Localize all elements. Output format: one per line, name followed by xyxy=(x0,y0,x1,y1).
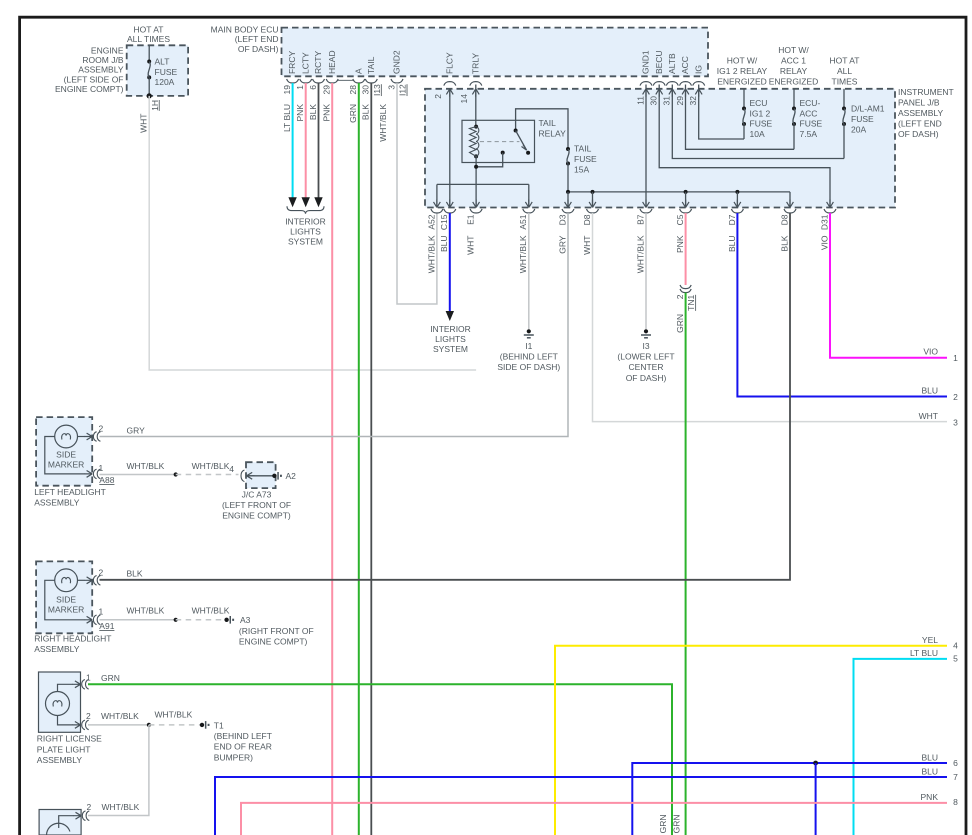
ECU pin TRLY connector into J/B (pin 14) xyxy=(470,82,482,86)
svg-text:20A: 20A xyxy=(851,125,866,135)
svg-text:29: 29 xyxy=(675,96,685,106)
svg-text:6: 6 xyxy=(308,85,318,90)
left headlight pin 2 connector xyxy=(84,433,92,440)
svg-text:HOT AT: HOT AT xyxy=(830,56,860,66)
svg-text:WHT/BLK: WHT/BLK xyxy=(426,235,436,273)
wire GRN from license pin 1 across page xyxy=(88,684,672,835)
bulb SIDE MARKER (right headlight) xyxy=(55,569,78,592)
svg-text:28: 28 xyxy=(348,85,358,95)
J/B pin D31 connector xyxy=(827,200,834,208)
svg-text:I3: I3 xyxy=(642,341,649,351)
svg-text:MAIN BODY ECU: MAIN BODY ECU xyxy=(211,25,279,35)
svg-text:(LOWER LEFT: (LOWER LEFT xyxy=(617,352,674,362)
svg-text:30: 30 xyxy=(649,96,659,106)
svg-text:(LEFT END: (LEFT END xyxy=(898,119,942,129)
bulb (left license plate light, partial) xyxy=(47,823,70,835)
svg-text:A3: A3 xyxy=(240,615,251,625)
svg-text:120A: 120A xyxy=(155,77,175,87)
svg-text:FRCY: FRCY xyxy=(287,51,297,74)
svg-text:PANEL J/B: PANEL J/B xyxy=(898,98,940,108)
ECU pin GND2 (3) connector xyxy=(391,79,403,83)
J/B pin B7 connector xyxy=(643,200,650,208)
svg-text:ACC: ACC xyxy=(680,56,690,74)
svg-text:ECU-: ECU- xyxy=(800,98,821,108)
wire WHT/BLK jumper to second license light xyxy=(88,725,149,816)
ECU pin FRCY (19) connector xyxy=(287,79,299,83)
ECU pin HEAD (29) connector xyxy=(326,79,338,83)
left headlight assembly box xyxy=(36,417,92,486)
svg-text:D8: D8 xyxy=(582,214,592,225)
svg-text:D3: D3 xyxy=(557,214,567,225)
wire PNK from LCTY to interior lights system xyxy=(305,83,307,198)
wire IG to ECU IG1 2 fuse inside J/B xyxy=(699,85,744,140)
wire GRN from TN1 down off page xyxy=(685,293,687,835)
relay TAIL RELAY box xyxy=(462,120,535,162)
svg-text:WHT: WHT xyxy=(466,236,476,255)
svg-text:WHT/BLK: WHT/BLK xyxy=(127,606,165,616)
ECU pin ACC connector into J/B (pin 29) xyxy=(680,82,692,86)
ground I1 xyxy=(527,329,531,333)
svg-text:WHT/BLK: WHT/BLK xyxy=(101,711,139,721)
svg-text:BLK: BLK xyxy=(127,568,143,578)
left license pin 2 connector xyxy=(73,812,81,819)
wire WHT/BLK from license pin 2 to splice T1 xyxy=(88,724,149,726)
svg-text:GRY: GRY xyxy=(557,235,567,254)
instrument panel J/B assembly box xyxy=(425,89,895,208)
svg-text:D/L-AM1: D/L-AM1 xyxy=(851,104,885,114)
svg-text:GRN: GRN xyxy=(101,673,120,683)
wire WHT/BLK dashed to splice A3 xyxy=(176,619,227,621)
wire WHT/BLK from right headlight pin 1 to splice A3 xyxy=(100,619,176,621)
node splice A3 xyxy=(224,618,228,622)
svg-text:T1: T1 xyxy=(214,721,224,731)
svg-text:ALT: ALT xyxy=(155,57,170,67)
node 1H (engine J/B connector) xyxy=(147,93,152,98)
svg-text:FLCY: FLCY xyxy=(444,52,454,74)
svg-text:YEL: YEL xyxy=(922,635,938,645)
node junction on BLU 6 xyxy=(813,761,818,766)
svg-text:BUMPER): BUMPER) xyxy=(214,752,253,762)
ECU pin GND1 connector into J/B (pin 11) xyxy=(640,82,652,86)
svg-text:SIDE OF DASH): SIDE OF DASH) xyxy=(497,362,560,372)
svg-text:1: 1 xyxy=(86,672,91,682)
svg-text:CENTER: CENTER xyxy=(629,362,664,372)
svg-text:WHT/BLK: WHT/BLK xyxy=(635,235,645,273)
svg-text:RCTY: RCTY xyxy=(313,51,323,74)
right headlight internal wiring xyxy=(45,580,85,620)
svg-text:2: 2 xyxy=(99,568,104,578)
wire PNK terminal 8 xyxy=(241,803,947,835)
J/B pin E1 connector xyxy=(473,200,480,208)
node splice A2 xyxy=(272,474,276,478)
svg-text:GRY: GRY xyxy=(127,425,146,435)
svg-text:D31: D31 xyxy=(819,214,829,230)
svg-text:ACC 1: ACC 1 xyxy=(781,56,806,66)
wire BLK from TAIL pin down off page xyxy=(370,83,372,835)
svg-text:GND2: GND2 xyxy=(392,50,402,74)
left license plate light assembly box (partial) xyxy=(39,810,81,835)
svg-text:TAIL: TAIL xyxy=(539,118,557,128)
svg-text:GRN: GRN xyxy=(348,104,358,123)
wire D3 drop from tail fuse xyxy=(567,192,569,208)
svg-text:A52: A52 xyxy=(426,214,436,229)
svg-text:WHT: WHT xyxy=(919,411,938,421)
wire WHT/BLK dashed to splice T1 xyxy=(149,724,202,726)
svg-text:ENERGIZED: ENERGIZED xyxy=(717,77,767,87)
svg-text:WHT/BLK: WHT/BLK xyxy=(155,710,193,720)
svg-text:LT BLU: LT BLU xyxy=(910,648,938,658)
svg-text:D7: D7 xyxy=(727,214,737,225)
svg-text:B7: B7 xyxy=(635,214,645,225)
ECU pin FLCY connector into J/B (pin 2) xyxy=(444,82,456,86)
svg-text:IG: IG xyxy=(693,65,703,74)
svg-text:HOT AT: HOT AT xyxy=(134,24,164,34)
svg-text:PLATE LIGHT: PLATE LIGHT xyxy=(37,744,91,754)
fuse ALT FUSE 120A xyxy=(148,45,150,61)
J/B pin A52 connector xyxy=(434,200,441,208)
svg-text:A: A xyxy=(353,68,363,74)
svg-text:END OF REAR: END OF REAR xyxy=(214,742,272,752)
svg-text:SIDE: SIDE xyxy=(56,449,76,459)
engine room J/B assembly box xyxy=(127,45,188,96)
svg-text:ASSEMBLY: ASSEMBLY xyxy=(34,644,80,654)
relay switch contacts xyxy=(514,129,518,133)
svg-text:C5: C5 xyxy=(675,214,685,225)
wire inside J/C A73 with arrow xyxy=(247,472,255,479)
svg-text:10A: 10A xyxy=(750,129,765,139)
node splice dot (license) xyxy=(147,723,151,727)
left headlight internal wiring xyxy=(45,437,85,474)
fuse D/L-AM1 FUSE 20A xyxy=(843,89,845,109)
license light internal wiring xyxy=(58,684,74,691)
svg-text:TIMES: TIMES xyxy=(832,77,858,87)
wire BECU to D31 inside J/B xyxy=(659,85,830,208)
wire WHT/BLK from GND2 to J/B pin A52 xyxy=(397,83,437,304)
svg-text:INSTRUMENT: INSTRUMENT xyxy=(898,87,954,97)
wire BLU from C15 to interior lights system xyxy=(449,213,451,312)
svg-text:BLK: BLK xyxy=(779,235,789,251)
svg-text:BLU: BLU xyxy=(727,236,737,253)
svg-text:LIGHTS: LIGHTS xyxy=(290,227,321,237)
svg-text:2: 2 xyxy=(99,424,104,434)
svg-text:PNK: PNK xyxy=(921,792,939,802)
svg-text:PNK: PNK xyxy=(295,104,305,122)
node splice dot (left headlight) xyxy=(174,472,178,476)
svg-text:ASSEMBLY: ASSEMBLY xyxy=(78,65,124,75)
svg-text:HOT W/: HOT W/ xyxy=(778,45,809,55)
svg-text:WHT: WHT xyxy=(139,114,149,133)
svg-text:GND1: GND1 xyxy=(641,50,651,74)
svg-text:A2: A2 xyxy=(286,471,297,481)
relay switch feed wire to TAIL FUSE xyxy=(516,109,568,149)
svg-text:(LEFT FRONT OF: (LEFT FRONT OF xyxy=(222,500,291,510)
svg-text:ACC: ACC xyxy=(800,108,818,118)
svg-text:RELAY: RELAY xyxy=(539,129,567,139)
svg-text:2: 2 xyxy=(953,392,958,402)
relay coil xyxy=(474,125,478,129)
svg-text:OF DASH): OF DASH) xyxy=(626,373,667,383)
right headlight pin 1 connector xyxy=(84,616,92,623)
svg-text:ASSEMBLY: ASSEMBLY xyxy=(898,108,944,118)
svg-text:INTERIOR: INTERIOR xyxy=(430,324,471,334)
svg-text:WHT: WHT xyxy=(582,236,592,255)
brace interior lights system xyxy=(287,206,324,214)
svg-text:LCTY: LCTY xyxy=(300,52,310,74)
svg-text:FUSE: FUSE xyxy=(851,114,874,124)
svg-text:I13: I13 xyxy=(372,84,382,96)
svg-text:ENGINE COMPT): ENGINE COMPT) xyxy=(239,636,308,646)
node splice dot (right headlight) xyxy=(174,618,178,622)
bulb (right license plate light) xyxy=(46,692,70,716)
wire WHT/BLK from left headlight pin 1 to splice A2 xyxy=(100,474,176,476)
wire tail feed bus xyxy=(568,191,790,193)
svg-text:BECU: BECU xyxy=(654,50,664,74)
svg-text:INTERIOR: INTERIOR xyxy=(285,217,326,227)
svg-text:2: 2 xyxy=(433,94,443,99)
svg-text:8: 8 xyxy=(953,797,958,807)
svg-text:LIGHTS: LIGHTS xyxy=(435,334,466,344)
svg-text:ENGINE COMPT): ENGINE COMPT) xyxy=(222,511,291,521)
license pin 2 connector xyxy=(73,722,81,729)
svg-text:IG1 2 RELAY: IG1 2 RELAY xyxy=(717,66,768,76)
wire ALTB to D/L-AM1 fuse inside J/B xyxy=(672,85,844,159)
svg-text:I1: I1 xyxy=(525,341,532,351)
svg-text:ECU: ECU xyxy=(750,98,768,108)
svg-text:WHT/BLK: WHT/BLK xyxy=(102,802,140,812)
wire BLU from D7 to terminal 2 xyxy=(737,213,947,397)
svg-text:1: 1 xyxy=(953,353,958,363)
wire WHT from D8 to terminal 3 xyxy=(593,213,948,422)
svg-text:MARKER: MARKER xyxy=(48,459,84,469)
svg-text:15A: 15A xyxy=(574,165,589,175)
ECU pin LCTY (1) connector xyxy=(300,79,312,83)
wire A52-A51 jumper inside J/B xyxy=(437,183,529,185)
svg-text:31: 31 xyxy=(662,96,672,106)
svg-text:PNK: PNK xyxy=(322,104,332,122)
arrows into interior lights system xyxy=(288,197,296,207)
wire GRY from D3 to left headlight side marker xyxy=(100,213,569,437)
wire BLU terminal 6 xyxy=(632,763,947,835)
wire GRN from A pin down off page xyxy=(358,83,360,835)
ECU main body box xyxy=(282,28,709,77)
svg-text:ASSEMBLY: ASSEMBLY xyxy=(34,498,80,508)
svg-text:BLU: BLU xyxy=(439,236,449,253)
svg-text:ALTB: ALTB xyxy=(667,53,677,74)
J/B pin A51 connector xyxy=(525,200,532,208)
svg-text:3: 3 xyxy=(953,418,958,428)
svg-text:5: 5 xyxy=(953,654,958,664)
svg-text:BLU: BLU xyxy=(921,767,938,777)
ECU pin IG connector into J/B (pin 32) xyxy=(693,82,705,86)
svg-text:J/C A73: J/C A73 xyxy=(242,489,272,499)
svg-text:BLK: BLK xyxy=(361,104,371,120)
wire WHT/BLK from A51 to ground I1 xyxy=(528,213,530,329)
svg-text:WHT/BLK: WHT/BLK xyxy=(192,606,230,616)
svg-text:TAIL: TAIL xyxy=(366,56,376,74)
right headlight pin 2 connector xyxy=(84,577,92,584)
svg-text:WHT/BLK: WHT/BLK xyxy=(127,461,165,471)
wire VIO from D31 to terminal 1 xyxy=(830,213,947,358)
wire GND1 to B7 through J/B xyxy=(645,85,647,208)
svg-text:FUSE: FUSE xyxy=(800,119,823,129)
svg-text:1H: 1H xyxy=(150,100,160,111)
ECU pin BECU connector into J/B (pin 30) xyxy=(653,82,665,86)
svg-text:(RIGHT FRONT OF: (RIGHT FRONT OF xyxy=(239,626,314,636)
svg-text:1: 1 xyxy=(99,463,104,473)
right license plate light assembly box xyxy=(39,672,81,732)
wire LT BLU from FRCY to interior lights system xyxy=(292,83,294,198)
wire BLU terminal 7 xyxy=(215,777,947,835)
svg-text:HEAD: HEAD xyxy=(327,50,337,74)
bulb SIDE MARKER (left headlight) xyxy=(55,425,78,448)
svg-text:4: 4 xyxy=(953,641,958,651)
svg-text:(BEHIND LEFT: (BEHIND LEFT xyxy=(500,352,558,362)
svg-text:LT BLU: LT BLU xyxy=(282,104,292,132)
svg-text:E1: E1 xyxy=(466,214,476,225)
svg-text:ALL: ALL xyxy=(837,66,852,76)
svg-text:4: 4 xyxy=(229,464,234,474)
svg-text:(BEHIND LEFT: (BEHIND LEFT xyxy=(214,731,272,741)
ECU pin RCTY (6) connector xyxy=(313,79,325,83)
svg-text:ENERGIZED: ENERGIZED xyxy=(769,77,819,87)
ECU pin TAIL (30) connector xyxy=(365,79,377,83)
svg-text:ENGINE: ENGINE xyxy=(91,45,124,55)
wire BLK from D8 to right headlight side marker xyxy=(100,213,791,580)
svg-text:OF DASH): OF DASH) xyxy=(238,44,279,54)
svg-text:LEFT HEADLIGHT: LEFT HEADLIGHT xyxy=(34,487,106,497)
node splice T1 xyxy=(200,723,204,727)
svg-text:VIO: VIO xyxy=(923,347,938,357)
wire WHT/BLK dashed to J/C A73 xyxy=(176,474,239,476)
ECU pin ALTB connector into J/B (pin 31) xyxy=(666,82,678,86)
svg-text:VIO: VIO xyxy=(819,235,829,250)
node bus junction at C5 xyxy=(684,190,688,194)
relay internal dashed line xyxy=(480,141,520,143)
svg-text:30: 30 xyxy=(361,85,371,95)
svg-text:I12: I12 xyxy=(398,84,408,96)
svg-text:TN1: TN1 xyxy=(686,295,696,311)
svg-text:HOT W/: HOT W/ xyxy=(727,56,758,66)
svg-text:RIGHT LICENSE: RIGHT LICENSE xyxy=(37,734,102,744)
node bus junction at D7 xyxy=(735,190,739,194)
fuse ECU-ACC FUSE 7.5A xyxy=(793,89,795,109)
svg-text:OF DASH): OF DASH) xyxy=(898,129,939,139)
svg-text:RIGHT HEADLIGHT: RIGHT HEADLIGHT xyxy=(34,634,111,644)
svg-text:PNK: PNK xyxy=(675,235,685,253)
svg-text:WHT/BLK: WHT/BLK xyxy=(378,104,388,142)
license pin 1 connector xyxy=(73,681,81,688)
svg-text:BLU: BLU xyxy=(921,386,938,396)
J/B pin C15 connector xyxy=(446,200,453,208)
svg-text:BLK: BLK xyxy=(308,104,318,120)
svg-text:(LEFT SIDE OF: (LEFT SIDE OF xyxy=(64,74,124,84)
svg-text:SYSTEM: SYSTEM xyxy=(433,344,468,354)
svg-text:FUSE: FUSE xyxy=(574,154,597,164)
svg-text:A91: A91 xyxy=(99,621,114,631)
svg-text:RELAY: RELAY xyxy=(780,66,808,76)
right headlight assembly box xyxy=(36,561,92,633)
wire YEL terminal 4 xyxy=(555,646,947,835)
svg-text:C15: C15 xyxy=(439,214,449,230)
node bus junction at D3 xyxy=(566,190,570,194)
svg-text:TRLY: TRLY xyxy=(470,53,480,74)
wire relay coil return to E1 xyxy=(475,156,477,207)
svg-text:ASSEMBLY: ASSEMBLY xyxy=(37,755,83,765)
wire TRLY to relay coil xyxy=(475,85,477,127)
svg-text:(LEFT END: (LEFT END xyxy=(235,34,279,44)
svg-text:WHT/BLK: WHT/BLK xyxy=(518,235,528,273)
svg-text:SIDE: SIDE xyxy=(56,595,76,605)
wire BLK from RCTY to interior lights system xyxy=(318,83,320,198)
svg-text:IG1 2: IG1 2 xyxy=(750,108,771,118)
wire PNK from HEAD pin down off page xyxy=(331,83,333,835)
svg-text:FUSE: FUSE xyxy=(750,119,773,129)
svg-text:14: 14 xyxy=(459,94,469,104)
svg-text:MARKER: MARKER xyxy=(48,605,84,615)
J/B pin D8 connector xyxy=(787,200,794,208)
J/B pin D8 connector xyxy=(589,200,596,208)
J/B pin C5 connector xyxy=(682,200,689,208)
left license internal wiring xyxy=(59,816,74,828)
fuse ECU IG1 2 FUSE 10A xyxy=(743,89,745,109)
svg-text:1: 1 xyxy=(295,85,305,90)
svg-text:A51: A51 xyxy=(518,214,528,229)
wire ACC to ECU-ACC fuse inside J/B xyxy=(686,85,795,150)
node relay return junction xyxy=(474,165,478,169)
svg-text:TAIL: TAIL xyxy=(574,144,592,154)
wire PNK from C5 to connector TN1 xyxy=(685,213,687,285)
svg-text:A88: A88 xyxy=(99,475,114,485)
connector TN1 (pin 2) xyxy=(680,285,691,289)
ground I3 xyxy=(644,329,648,333)
wire relay contact to coil-return node xyxy=(476,153,503,167)
svg-text:11: 11 xyxy=(635,96,645,105)
connector link line between HEAD and A pins xyxy=(337,79,354,81)
svg-text:D8: D8 xyxy=(779,214,789,225)
svg-text:2: 2 xyxy=(675,294,685,299)
svg-text:ALL TIMES: ALL TIMES xyxy=(127,34,170,44)
fuse TAIL FUSE 15A xyxy=(566,147,570,151)
svg-text:2: 2 xyxy=(86,711,91,721)
svg-text:GRN: GRN xyxy=(675,314,685,333)
J/B pin D7 connector xyxy=(734,200,741,208)
svg-text:32: 32 xyxy=(688,96,698,106)
node bus junction at D8 xyxy=(591,190,595,194)
wire WHT from ALT fuse 1H down and right to J/B pin E1 xyxy=(149,96,476,370)
svg-text:19: 19 xyxy=(282,85,292,95)
wire FLCY through J/B to C15 xyxy=(449,89,451,208)
wire LT BLU terminal 5 xyxy=(854,659,948,835)
svg-text:3: 3 xyxy=(386,85,396,90)
svg-text:2: 2 xyxy=(87,802,92,812)
wire BLU branch from terminal 6 down xyxy=(815,763,817,835)
ECU pin A (28) connector xyxy=(353,79,365,83)
svg-text:6: 6 xyxy=(953,758,958,768)
svg-text:WHT/BLK: WHT/BLK xyxy=(192,461,230,471)
svg-text:29: 29 xyxy=(322,85,332,95)
J/B pin D3 connector xyxy=(565,200,572,208)
svg-text:FUSE: FUSE xyxy=(155,67,178,77)
svg-text:ROOM J/B: ROOM J/B xyxy=(82,55,123,65)
wire WHT/BLK from B7 to ground I3 xyxy=(645,213,647,329)
svg-text:BLU: BLU xyxy=(921,753,938,763)
svg-text:7: 7 xyxy=(953,772,958,782)
svg-text:7.5A: 7.5A xyxy=(800,129,818,139)
svg-text:ENGINE COMPT): ENGINE COMPT) xyxy=(55,84,124,94)
svg-text:GRN: GRN xyxy=(658,815,668,834)
left headlight pin 1 connector xyxy=(84,471,92,478)
svg-text:1: 1 xyxy=(99,607,104,617)
